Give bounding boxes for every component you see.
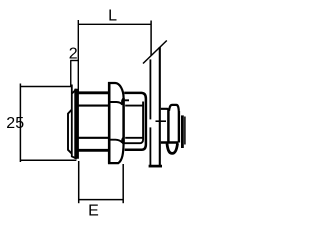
dimension 25 top extension — [20, 86, 71, 88]
panel left edge upper — [149, 59, 151, 119]
washer and nut bottom edge — [161, 141, 179, 143]
svg-text:L: L — [108, 7, 117, 24]
cam end cap outer line — [184, 117, 186, 145]
body inner line lower — [78, 137, 108, 139]
extension line left of L — [77, 20, 79, 92]
nut N1 left edge — [108, 82, 111, 164]
body inner line upper — [78, 105, 108, 107]
nut N1 facet line — [122, 98, 125, 143]
panel right edge — [159, 47, 161, 167]
svg-text:2: 2 — [69, 45, 78, 62]
panel break slash — [143, 41, 167, 64]
spindle line through panel — [156, 120, 167, 122]
nut N1 left facet bottom chamfer line — [110, 140, 123, 143]
dimension L line — [78, 23, 151, 25]
dimension E line — [79, 199, 124, 201]
cam end cap — [181, 115, 184, 148]
body bottom edge — [78, 149, 110, 152]
nut N1 top edge and chamfer arc — [108, 83, 124, 98]
dimension 25 bottom extension — [20, 159, 76, 161]
dimension E right extension — [122, 164, 124, 203]
small nut N2 top crown — [169, 105, 179, 111]
sleeve chamfer top stub — [124, 99, 129, 101]
small nut N2 bottom crown — [167, 144, 178, 154]
flange outline — [72, 85, 77, 159]
dimension 2 line — [70, 60, 78, 62]
extension line right of L — [150, 21, 152, 56]
washer top edge — [161, 109, 169, 111]
small nut N2 right edge — [178, 111, 180, 143]
svg-text:E: E — [88, 202, 99, 219]
front cap left edge — [68, 110, 72, 154]
svg-text:25: 25 — [6, 115, 24, 132]
body top edge — [78, 91, 110, 94]
panel left edge lower — [149, 127, 151, 166]
nut N1 facet bottom chamfer knob — [122, 138, 123, 144]
dimension 25 line — [19, 84, 21, 163]
dimension 2 left extension — [70, 61, 72, 87]
nut N1 left facet top chamfer line — [110, 102, 123, 105]
washer right edge — [167, 111, 170, 142]
panel bottom edge — [149, 165, 162, 168]
sleeve chamfer bottom line — [124, 141, 143, 144]
nut N1 facet chamfer knob — [122, 99, 123, 105]
flange right thick edge — [74, 89, 79, 159]
nut N1 bottom chamfer arc and bottom edge — [108, 143, 124, 163]
sleeve chamfer end line — [142, 102, 144, 141]
sleeve core line upper — [125, 105, 142, 107]
sleeve outline — [124, 93, 146, 150]
sleeve core line lower — [125, 137, 142, 139]
dimension E left extension — [78, 161, 80, 203]
